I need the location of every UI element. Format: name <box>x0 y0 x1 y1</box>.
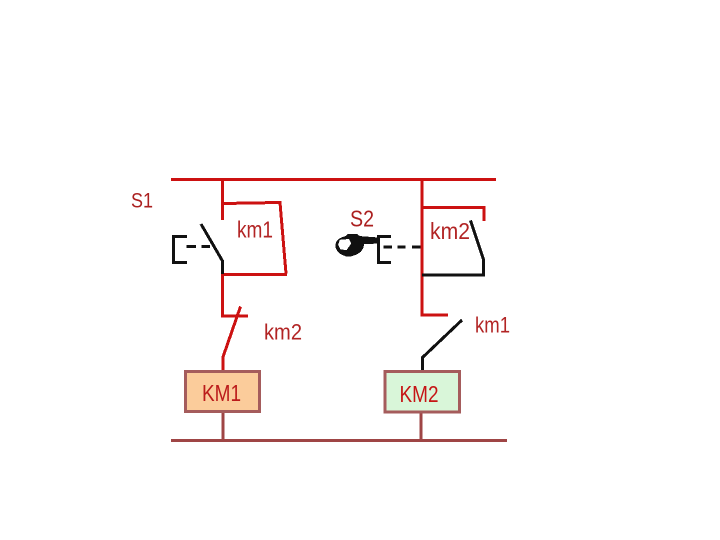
wire bottom return rail <box>171 439 507 442</box>
contact km1 NC (black, above KM2 coil) <box>423 320 463 371</box>
pushbutton S1 actuator bracket <box>174 237 188 263</box>
pushbutton S1 actuator dashed link <box>187 245 211 248</box>
svg-text:S2: S2 <box>350 206 374 232</box>
svg-text:KM1: KM1 <box>202 380 241 406</box>
pushbutton S2 actuator dashed link <box>384 245 421 248</box>
wire right branch top bracket (red) <box>422 208 484 222</box>
contact km2 NC (red, above KM1 coil) <box>221 307 248 358</box>
contact S1 moving arm (NO pushbutton) <box>201 224 223 276</box>
wire middle foot <box>421 314 449 317</box>
svg-text:km2: km2 <box>264 320 302 345</box>
wire middle vertical (S2 closed contact path) <box>421 178 424 316</box>
svg-text:KM2: KM2 <box>400 381 439 407</box>
wire left branch drop from rail <box>221 178 224 220</box>
coil KM1 box <box>186 372 260 412</box>
svg-text:km1: km1 <box>475 313 510 338</box>
wire KM2 to bottom rail <box>420 414 423 441</box>
svg-text:km2: km2 <box>430 218 470 244</box>
coil KM2 box <box>385 372 460 413</box>
wire left vertical below branch <box>221 274 224 316</box>
wire top supply rail <box>171 178 496 181</box>
wire KM1 to bottom rail <box>222 413 225 440</box>
pushbutton S2 actuator bracket <box>379 237 392 263</box>
contact km2 aux (black, right branch) <box>422 221 485 276</box>
wire into KM1 coil <box>222 356 225 371</box>
pushbutton S2 hand actuator icon <box>335 234 376 257</box>
svg-text:km1: km1 <box>237 217 273 243</box>
svg-text:S1: S1 <box>131 190 153 213</box>
contact km1 aux (red parallel branch around S1) <box>221 203 287 275</box>
